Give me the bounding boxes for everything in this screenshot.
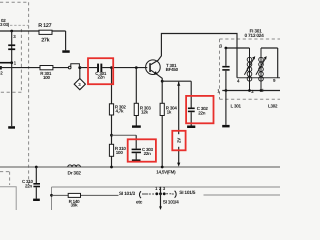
ground (R127)	[62, 50, 69, 53]
wire C303 bottom lead	[135, 153, 137, 159]
wire L302 top row	[261, 47, 278, 49]
module box bottom-left	[0, 187, 16, 210]
svg-text:1k: 1k	[167, 109, 172, 114]
wire bottom lower right	[204, 194, 281, 196]
voltage measuring arrow 2V	[176, 82, 181, 167]
dashed box filter Fi301 outline	[220, 39, 281, 99]
node 1 stub wire	[0, 61, 17, 66]
wire left branch vertical	[11, 31, 13, 126]
resistor R140 39k	[68, 193, 80, 207]
wire R140 row	[52, 194, 119, 196]
wire to pin 1	[142, 193, 148, 195]
resistor R302 4,7k	[109, 104, 126, 115]
node rail C310	[35, 166, 38, 169]
wire to C303	[112, 134, 137, 136]
tuning arrow L301	[244, 56, 255, 75]
svg-text:L302: L302	[268, 104, 278, 109]
svg-text:3 03): 3 03)	[0, 22, 10, 27]
node at R303	[135, 66, 138, 69]
node 2 stub at edge	[0, 66, 3, 75]
resistor R127 27k	[38, 23, 52, 43]
capacitor (left branch)	[8, 44, 15, 50]
wire R127 to ground	[65, 31, 67, 50]
resistor R301 100	[40, 66, 53, 80]
node emitter junction	[161, 80, 164, 83]
wire R303 column	[135, 68, 137, 127]
svg-text:SI 101/3: SI 101/3	[119, 191, 135, 197]
label fragment C202/303 top-left	[0, 18, 29, 27]
node bus left	[225, 89, 228, 92]
svg-text:SI 101/5: SI 101/5	[179, 190, 195, 196]
ground (C310)	[33, 199, 40, 201]
ground (R303)	[132, 125, 141, 127]
wire C310 bottom lead	[35, 187, 37, 198]
jumper link	[68, 64, 79, 69]
node rail R304	[161, 166, 164, 169]
resistor R303 12k	[134, 103, 151, 115]
wire 14,5V rail	[0, 166, 280, 168]
node 3 junction	[10, 30, 16, 39]
wire C301 to base	[102, 67, 147, 69]
node R302/R310	[110, 134, 113, 137]
capacitor C303 22n	[132, 147, 154, 156]
svg-text:R 127: R 127	[38, 23, 51, 29]
wire bus to ground	[225, 91, 227, 125]
wire C302 bottom lead	[190, 112, 192, 125]
svg-text:100: 100	[116, 150, 124, 155]
svg-text:100: 100	[43, 75, 51, 80]
capacitor C301 22n	[95, 64, 107, 80]
wire C303 top lead	[135, 135, 137, 148]
node L302 bottom	[260, 89, 263, 92]
wire pin 2 tick up	[160, 187, 162, 194]
node pin 2	[248, 89, 254, 94]
connector bracket close	[175, 191, 177, 198]
wire cap top lead	[225, 48, 227, 66]
capacitor C310 22n	[22, 179, 40, 188]
wire corner vertical	[51, 187, 53, 210]
capacitor C302 22n	[188, 106, 208, 115]
node rail R310	[110, 166, 113, 169]
capacitor at pin 3	[222, 66, 229, 71]
inductor L302	[259, 48, 264, 91]
choke Dr302	[68, 165, 82, 177]
wire to diamond	[79, 69, 81, 79]
svg-text:etc: etc	[136, 199, 143, 205]
wire pin 1 bus row	[222, 90, 280, 92]
ground (Fi bus)	[222, 125, 229, 128]
pin 1	[155, 186, 158, 195]
wire R304 column	[161, 81, 163, 167]
svg-text:22n: 22n	[98, 75, 106, 80]
resistor R304 1k	[160, 103, 177, 115]
ground (C303)	[132, 159, 141, 161]
svg-text:14,5V(FM): 14,5V(FM)	[156, 169, 176, 174]
svg-text:2V: 2V	[176, 138, 181, 143]
svg-text:SI 101/4: SI 101/4	[163, 199, 179, 205]
wire emitter row	[162, 80, 191, 82]
wire to bracket close	[172, 193, 174, 195]
wire C302 top lead	[190, 81, 192, 107]
svg-text:4,7k: 4,7k	[116, 109, 125, 114]
ground (left branch)	[8, 126, 15, 129]
red highlight box C303	[128, 139, 156, 161]
wire pin 9 drop	[277, 48, 279, 78]
wire main row to R301	[0, 67, 68, 69]
wire cap bottom lead	[225, 71, 227, 91]
wire dashed to pin 1	[149, 193, 154, 195]
wire C310 top lead	[35, 167, 37, 183]
connector bracket open	[139, 191, 141, 198]
inductor L301	[247, 48, 252, 91]
wire pin 3 row	[226, 47, 250, 49]
svg-text:22n: 22n	[25, 183, 33, 188]
wire pin 2 down arrow	[159, 194, 162, 210]
svg-text:0 713 024: 0 713 024	[245, 33, 265, 39]
transistor T301 BF450	[146, 34, 237, 82]
svg-text:27k: 27k	[41, 37, 49, 43]
red highlight box C302	[186, 96, 213, 123]
connector diamond 3	[74, 79, 85, 90]
red highlight box 2V	[172, 131, 185, 151]
wire transformer cross line	[237, 77, 280, 79]
node junction at jumper	[78, 66, 81, 69]
pin 3	[163, 186, 166, 195]
wire node-3 row	[0, 30, 66, 32]
svg-text:L 301: L 301	[231, 104, 242, 109]
pin 2	[159, 186, 162, 195]
svg-text:Dr 302: Dr 302	[68, 171, 82, 177]
wire to C301	[80, 67, 97, 69]
node after C301	[110, 66, 113, 69]
svg-text:39k: 39k	[71, 203, 79, 208]
dashed module border top-left	[0, 2, 29, 185]
wire R302 column	[111, 68, 113, 167]
svg-text:22n: 22n	[144, 151, 152, 156]
node pin 3	[225, 47, 228, 50]
red highlight box C301	[88, 58, 113, 84]
wire dashed to bracket close	[166, 193, 171, 195]
ground (C302)	[187, 126, 195, 129]
tuning arrow L302	[256, 56, 267, 75]
wire bottom upper line	[52, 186, 281, 188]
label Fi 301 0 713 024	[245, 29, 265, 39]
svg-text:12k: 12k	[141, 109, 149, 114]
node R140 wire	[50, 194, 53, 197]
svg-text:BF450: BF450	[166, 67, 179, 72]
resistor R310 100	[109, 144, 126, 156]
svg-text:22n: 22n	[198, 110, 206, 115]
